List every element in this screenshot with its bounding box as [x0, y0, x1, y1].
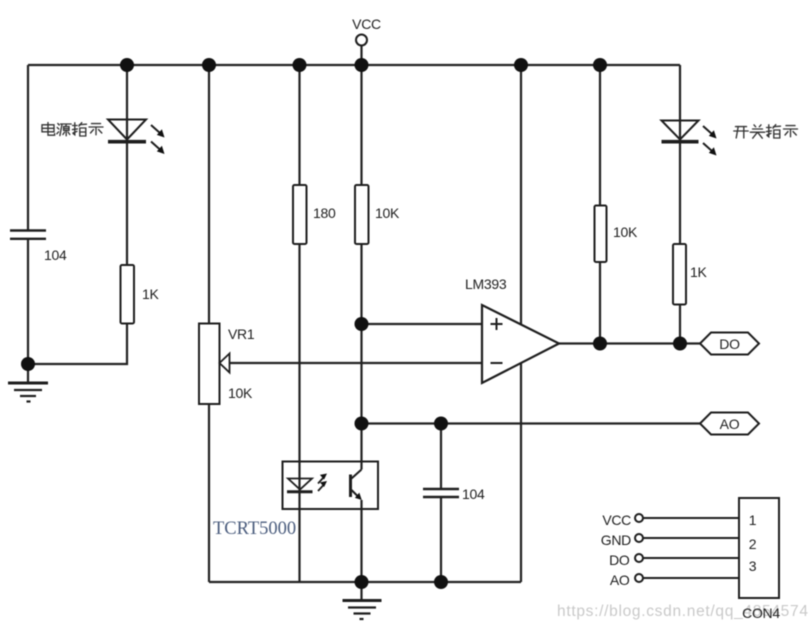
- wire LED D1 column: [126, 65, 128, 265]
- svg-text:1: 1: [749, 512, 757, 528]
- svg-text:TCRT5000: TCRT5000: [213, 519, 296, 539]
- TCRT5000 sensor box: [283, 462, 379, 510]
- resistor 1K (left): [121, 265, 160, 324]
- ground (left): [8, 383, 48, 402]
- junction dot rail x127: [120, 58, 134, 72]
- ground (middle): [343, 601, 382, 620]
- wire node to resistor 1K left: [28, 324, 127, 365]
- svg-text:VR1: VR1: [228, 326, 255, 342]
- wire 10K right column: [599, 65, 601, 206]
- svg-text:CON4: CON4: [742, 605, 780, 621]
- wire top power rail: [28, 64, 680, 66]
- wire left column (cap branch): [27, 65, 29, 230]
- svg-text:2: 2: [749, 536, 757, 552]
- junction dot left ground node: [21, 357, 35, 371]
- wire left ground stem: [27, 364, 29, 383]
- VCC terminal: [352, 16, 381, 46]
- svg-text:1K: 1K: [690, 264, 707, 280]
- flag AO: [700, 413, 759, 435]
- pin wire AO: [643, 577, 739, 579]
- junction dot bottom rail x361: [355, 575, 369, 589]
- potentiometer VR1 10K: [199, 324, 255, 405]
- wire plus input: [362, 323, 483, 325]
- svg-text:104: 104: [44, 247, 67, 263]
- svg-text:AO: AO: [610, 572, 630, 588]
- svg-text:3: 3: [749, 558, 757, 574]
- connector CON4: [739, 498, 779, 598]
- svg-text:1K: 1K: [142, 286, 159, 302]
- pin wire VCC: [643, 517, 739, 519]
- wire 10K middle column: [360, 65, 362, 185]
- svg-text:DO: DO: [609, 552, 630, 568]
- wire LED D2 column: [679, 65, 681, 244]
- wire 180-ohm column: [298, 65, 300, 185]
- LED D2 (switch indicator): [662, 121, 717, 156]
- wire VR1 column top: [208, 65, 210, 324]
- pin terminal GND: [635, 534, 643, 542]
- label 电源指示: [42, 123, 103, 136]
- wire AO line: [362, 422, 701, 424]
- pin terminal AO: [635, 574, 643, 582]
- resistor 10K (right): [595, 206, 638, 263]
- junction dot plus-input node: [355, 317, 369, 331]
- wire bottom ground rail: [209, 581, 521, 583]
- svg-text:10K: 10K: [228, 385, 253, 401]
- wire comparator output / DO: [559, 342, 700, 344]
- pin wire GND: [643, 537, 739, 539]
- pin terminal DO: [635, 554, 643, 562]
- TCRT5000 phototransistor: [351, 470, 362, 501]
- svg-text:10K: 10K: [613, 224, 638, 240]
- resistor 10K (middle): [355, 185, 400, 244]
- wire middle ground stem: [360, 582, 362, 600]
- wire LM393 V+: [520, 65, 522, 324]
- junction dot rail x521: [514, 58, 528, 72]
- wire cap C2 column: [440, 424, 442, 489]
- pin wire DO: [643, 557, 739, 559]
- flag DO: [700, 333, 759, 355]
- junction dot AO node: [355, 417, 369, 431]
- wire VR1 column bottom: [208, 404, 210, 582]
- wire VCC stub: [360, 46, 362, 66]
- label 开关指示: [734, 125, 798, 139]
- junction dot cap C2 top: [434, 417, 448, 431]
- wire minus input (VR1 wiper): [230, 362, 483, 364]
- svg-text:LM393: LM393: [465, 276, 507, 292]
- svg-text:VCC: VCC: [602, 512, 631, 528]
- capacitor C1 104: [10, 231, 67, 264]
- svg-text:DO: DO: [719, 336, 740, 352]
- svg-text:10K: 10K: [375, 205, 400, 221]
- LED D1 (power indicator): [108, 120, 165, 155]
- junction dot output x680: [673, 337, 687, 351]
- resistor 180: [293, 185, 336, 244]
- junction dot rail x299: [293, 58, 307, 72]
- pin terminal VCC: [635, 514, 643, 522]
- resistor 1K (right): [673, 244, 707, 305]
- svg-text:VCC: VCC: [352, 16, 381, 32]
- TCRT5000 internal LED: [287, 474, 327, 492]
- svg-text:GND: GND: [601, 532, 631, 548]
- junction dot rail x600: [593, 58, 607, 72]
- junction dot rail x209: [202, 58, 216, 72]
- svg-text:104: 104: [462, 486, 485, 502]
- capacitor C2 104: [423, 486, 485, 502]
- junction dot output x600: [593, 337, 607, 351]
- junction dot rail x361 (VCC): [355, 58, 369, 72]
- junction dot bottom rail x441: [434, 575, 448, 589]
- op-amp U1 LM393: [465, 276, 559, 383]
- wire LM393 V-: [520, 363, 522, 582]
- svg-text:180: 180: [313, 205, 336, 221]
- svg-text:AO: AO: [720, 416, 740, 432]
